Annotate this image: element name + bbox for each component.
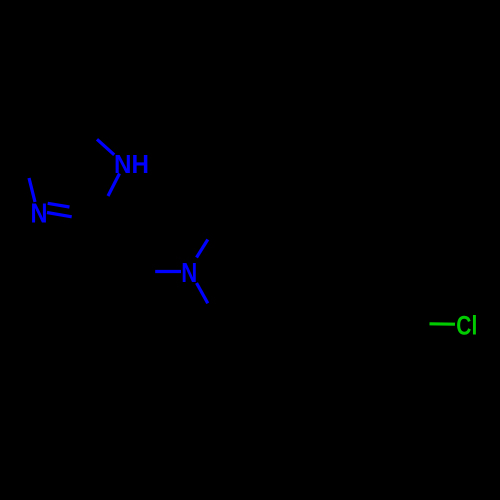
svg-text:N: N xyxy=(31,198,48,229)
svg-text:NH: NH xyxy=(114,151,149,179)
svg-text:Cl: Cl xyxy=(456,311,477,341)
svg-text:N: N xyxy=(181,257,197,288)
